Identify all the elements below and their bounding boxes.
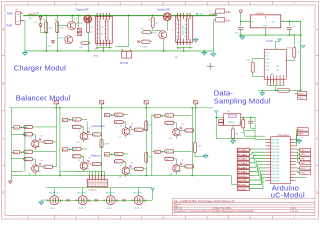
polarity mark [37, 12, 39, 14]
resistor R12 [242, 117, 244, 119]
pins U4 bottom [177, 39, 179, 46]
svg-text:1k: 1k [186, 166, 188, 168]
resistor Q12b [72, 125, 81, 128]
flags right GND [300, 167, 311, 170]
resistor R4 small [81, 41, 89, 44]
transistor Q4 [153, 30, 163, 32]
title block divider [289, 207, 291, 212]
connector P1 [16, 12, 21, 25]
svg-text:AREF: AREF [298, 133, 304, 136]
capacitor C2 [288, 21, 290, 26]
svg-text:Q?: Q? [89, 158, 91, 160]
connector P2 small [219, 120, 224, 123]
wire balancer left jogs [11, 126, 14, 128]
svg-text:PD3/INT: PD3/INT [238, 189, 247, 191]
transistor Q16 [173, 129, 180, 136]
crystal X1 [224, 114, 241, 126]
resistor Q11c [44, 165, 53, 168]
wire reg input [241, 20, 251, 22]
wire column verticals balancer [55, 108, 57, 167]
resistor R6 [152, 15, 154, 17]
svg-text:AVCC: AVCC [298, 128, 304, 131]
ground charger left [23, 53, 27, 56]
ground balancer mid [204, 155, 208, 158]
svg-text:Id: 1/1: Id: 1/1 [292, 211, 299, 213]
svg-text:C: C [316, 136, 318, 140]
wire cell Q10 right [39, 141, 44, 143]
svg-text:RLY1: RLY1 [135, 208, 141, 210]
wire cell Q10 out [33, 126, 57, 128]
wire stair to JP2 [60, 170, 104, 172]
flag BT4 [62, 148, 68, 151]
resistor Q17a [165, 150, 174, 153]
relay K4 [106, 196, 115, 205]
wire vertical x57 [56, 15, 58, 51]
wire cell Q12 in [68, 119, 73, 121]
svg-text:KiCad E.D.A. eeschema (2011-0: KiCad E.D.A. eeschema (2011-07-05 BZR 30… [174, 210, 254, 213]
svg-text:RELAY5V: RELAY5V [49, 192, 59, 195]
flag BT8 [155, 150, 161, 153]
transistor Q3 charger switch [84, 15, 92, 23]
transistor Q17 [173, 165, 180, 172]
svg-text:x1: x1 [120, 165, 122, 167]
svg-text:RELAY5V: RELAY5V [77, 192, 87, 195]
wire cell Q16 right [180, 129, 185, 131]
wires U1 to right flags [296, 148, 300, 151]
svg-text:1k: 1k [115, 122, 117, 124]
svg-text:PWR-: PWR- [7, 25, 13, 27]
svg-text:B: B [316, 81, 318, 85]
svg-text:BC557: BC557 [151, 32, 158, 34]
svg-text:x1: x1 [171, 126, 173, 128]
svg-text:GND: GND [298, 93, 303, 95]
flag BT6 [104, 153, 110, 156]
wire U3 bottom [96, 47, 112, 49]
diode marks between relays [67, 199, 70, 202]
power flag right bus [302, 46, 305, 48]
opto U3 [95, 16, 112, 43]
wire osc bottom [216, 138, 255, 140]
svg-text:PC0/AD0: PC0/AD0 [238, 149, 248, 152]
wire cell Q15 out [123, 153, 128, 155]
svg-text:1k: 1k [73, 156, 75, 158]
resistor Q10a [24, 125, 33, 128]
svg-text:PC5: PC5 [265, 69, 269, 71]
wire osc right vertical [254, 117, 256, 138]
transistor Q12 [80, 133, 87, 140]
wire to top right flags [296, 134, 298, 143]
resistor Q13c [92, 162, 101, 165]
sheet centre cross [207, 65, 214, 67]
svg-text:x: x [125, 55, 126, 57]
resistor Q17b [165, 157, 174, 160]
wire osc top right [241, 116, 255, 118]
svg-text:RLY1: RLY1 [79, 208, 85, 210]
wire sensor gnd rail [267, 85, 284, 87]
svg-text:PD4 PB4: PD4 PB4 [272, 152, 280, 154]
wire cell Q13 out [81, 148, 87, 150]
svg-text:PD2/INT: PD2/INT [238, 184, 247, 186]
svg-text:PD4 PB4: PD4 PB4 [272, 177, 280, 179]
svg-text:Charger Modul: Charger Modul [14, 63, 66, 72]
svg-text:139: 139 [76, 171, 79, 173]
wire relay rail y200 [46, 199, 152, 201]
wire Q4 emitter down [163, 39, 165, 51]
svg-text:PD3 PB3: PD3 PB3 [272, 149, 280, 151]
flags right port B [300, 148, 311, 151]
pins U3 bottom [96, 40, 98, 47]
svg-text:PD0/RXD: PD0/RXD [238, 176, 248, 178]
wire col1 inner vertical [24, 127, 26, 171]
connector JP2 pins [88, 174, 90, 179]
svg-text:File: my328ArduBal_bausVorlage: File: my328ArduBal_bausVorlage-VerkSchal… [174, 199, 235, 203]
wires stair flags to U1 [249, 148, 265, 151]
wire R10 to ground [194, 153, 196, 157]
transistor Q15 [122, 167, 129, 174]
svg-text:x1: x1 [120, 126, 122, 128]
svg-text:1k: 1k [166, 159, 168, 161]
svg-text:GND: GND [300, 168, 305, 170]
svg-text:Batt+: Batt+ [226, 11, 232, 14]
svg-text:1k: 1k [93, 164, 95, 166]
opto U4 [176, 16, 193, 43]
wire cell Q13 right [87, 163, 92, 165]
transistor Q5 discharge switch [163, 13, 171, 21]
flag BT5 [104, 113, 110, 116]
svg-text:1k: 1k [186, 130, 188, 132]
wires U1 to GND flags [296, 167, 300, 169]
wire vertical x88 [87, 15, 89, 22]
diode D5 mark [137, 40, 139, 42]
svg-text:PC3/AD3: PC3/AD3 [238, 162, 248, 165]
resistor R10 col4 [193, 142, 196, 153]
svg-text:RLY1: RLY1 [50, 208, 56, 210]
svg-text:100n: 100n [235, 32, 239, 34]
svg-text:RELAY5V: RELAY5V [133, 192, 143, 195]
ground relay1 [41, 199, 47, 201]
svg-text:PC2/AD2: PC2/AD2 [238, 158, 248, 161]
svg-text:CONN_6: CONN_6 [88, 189, 97, 191]
resistor R16 col3 row2 [145, 152, 148, 162]
svg-text:139: 139 [118, 176, 121, 178]
svg-text:1k: 1k [135, 130, 137, 132]
wire cell Q17 out [174, 150, 192, 152]
svg-text:Q?: Q? [181, 124, 183, 126]
IC U1 ATmega328 [271, 137, 291, 184]
resistor R14 col2 [100, 139, 103, 148]
flag Batt+ [216, 9, 225, 13]
svg-text:1k: 1k [25, 134, 27, 136]
svg-text:PD2 PB2: PD2 PB2 [272, 171, 280, 173]
wire osc left vertical [215, 113, 217, 138]
svg-text:Q?: Q? [131, 123, 133, 125]
svg-text:PC5/AD5: PC5/AD5 [238, 171, 248, 174]
svg-text:1k: 1k [45, 167, 47, 169]
svg-text:PC1: PC1 [265, 56, 269, 58]
svg-text:Balancer Modul: Balancer Modul [16, 93, 71, 102]
wire gnd rail [239, 34, 301, 36]
svg-text:Balancer: Balancer [91, 154, 101, 157]
svg-text:A4N35 8E: A4N35 8E [181, 25, 184, 35]
svg-text:RELAY5V: RELAY5V [105, 192, 115, 195]
resistor Q15c [134, 167, 143, 170]
power flag relay rail [151, 188, 154, 190]
svg-text:1M: 1M [235, 133, 238, 135]
svg-text:ATMEGA328: ATMEGA328 [277, 134, 290, 137]
transistor Q1 [68, 21, 76, 29]
svg-text:139: 139 [118, 137, 121, 139]
svg-text:x1: x1 [30, 138, 32, 140]
svg-text:D: D [2, 190, 4, 194]
svg-text:Q?: Q? [131, 163, 133, 165]
svg-text:PD2 PB2: PD2 PB2 [272, 146, 280, 148]
diode D1 [39, 16, 42, 19]
wire y90 rail [258, 89, 301, 91]
title block frame [172, 198, 315, 215]
wire cell Q14 right [129, 129, 134, 131]
resistor Q12c [92, 133, 101, 136]
svg-text:uC-Modul: uC-Modul [271, 191, 305, 200]
polarity mark right [196, 13, 198, 15]
svg-text:1k: 1k [115, 161, 117, 163]
wire cell Q16 in [160, 115, 165, 117]
frame column ticks top/bottom [54, 2, 56, 6]
wire bottom bus y175.3 [11, 175, 231, 177]
svg-text:x1: x1 [78, 160, 80, 162]
svg-text:P?: P? [217, 118, 219, 120]
svg-text:PD1 PB1: PD1 PB1 [272, 143, 280, 145]
svg-text:PD0 PB0: PD0 PB0 [272, 140, 280, 142]
wire Batt- down [213, 19, 216, 21]
svg-text:Batt-: Batt- [226, 20, 231, 23]
pin stacks U3 interior [96, 19, 98, 42]
resistor R9 [293, 35, 295, 47]
flag BT2 [14, 151, 20, 154]
flags port C left [237, 148, 249, 151]
svg-text:PC4/AD4: PC4/AD4 [238, 166, 248, 169]
fuse F2 [209, 14, 217, 16]
wire U4 bottom [177, 47, 193, 49]
resistor Q16a [165, 114, 174, 117]
svg-text:100R: 100R [142, 46, 147, 48]
svg-text:RLY1: RLY1 [107, 208, 113, 210]
pins U6 bottom [266, 75, 268, 85]
ground charger right [202, 52, 206, 55]
svg-text:R?: R? [148, 19, 150, 21]
svg-text:GND: GND [263, 25, 268, 27]
pins U4 top [177, 13, 179, 19]
svg-text:PD7 PB7: PD7 PB7 [272, 162, 280, 164]
svg-text:139: 139 [169, 174, 172, 176]
resistor R2 [56, 22, 59, 33]
svg-text:0R1 5W: 0R1 5W [120, 63, 129, 65]
ground osc [232, 139, 234, 141]
power flag VIN [239, 10, 242, 13]
resistor R8 [251, 62, 254, 72]
svg-text:R?: R? [43, 20, 45, 22]
svg-text:PC2: PC2 [265, 59, 269, 61]
svg-text:PC1/AD1: PC1/AD1 [238, 153, 248, 156]
svg-text:Q?: Q? [74, 18, 77, 20]
IC U6 sensor [264, 49, 286, 79]
capacitor C1 [238, 27, 243, 29]
resistor Q10b [24, 133, 33, 136]
pin stacks U4 interior [177, 18, 179, 40]
ground balancer left red [8, 181, 12, 184]
resistor R8b small [141, 40, 150, 43]
wire cell Q17 right [180, 165, 185, 167]
resistor R15 col3 [145, 121, 148, 131]
wire vertical x128.5 [128, 15, 130, 46]
zener D2 chain [40, 19, 42, 24]
svg-text:GND: GND [298, 98, 303, 100]
svg-text:PC3: PC3 [265, 62, 269, 64]
svg-text:x1: x1 [78, 130, 80, 132]
svg-text:ChargerOFF: ChargerOFF [75, 8, 89, 11]
wire relay rail y187.5 [46, 187, 152, 189]
svg-text:1k: 1k [45, 142, 47, 144]
flag GND 1 [298, 92, 307, 96]
svg-text:C: C [2, 136, 4, 140]
pins U3 top [96, 13, 98, 20]
svg-text:GND: GND [300, 172, 305, 174]
pins U1 left [265, 139, 271, 141]
svg-text:1k: 1k [166, 123, 168, 125]
wire bottom rail charger [25, 50, 213, 52]
resistor Q14a [114, 113, 123, 116]
svg-text:PD1/TXD: PD1/TXD [238, 180, 248, 182]
svg-text:100R: 100R [104, 143, 110, 145]
wire cell Q13 in [68, 148, 73, 150]
resistor Q17c [185, 165, 194, 168]
wire cell Q12 out [81, 118, 87, 120]
resistor Q11b [24, 158, 33, 161]
transistor Q2 [65, 36, 73, 44]
svg-text:1k: 1k [25, 159, 27, 161]
ground sensor [260, 93, 264, 96]
power flag osc [215, 111, 218, 113]
wire cell Q12 right [87, 133, 92, 135]
svg-text:1k: 1k [73, 127, 75, 129]
capacitor C3 [248, 120, 253, 122]
flag BT1 [14, 126, 20, 129]
resistor Q15a [114, 152, 123, 155]
svg-text:ADC: ADC [270, 73, 275, 76]
resistor R1 [45, 22, 48, 33]
flag Batt- [216, 18, 225, 22]
wire balancer top rail [9, 107, 213, 109]
relay K5 [134, 196, 143, 205]
flag BT3 [62, 118, 68, 121]
jumper JP1 [278, 88, 290, 92]
wire right bus x300.5 [300, 21, 302, 90]
svg-text:BC547: BC547 [58, 37, 65, 39]
ground U4 side [194, 39, 198, 42]
fuse marks on rail [54, 101, 58, 104]
resistor Q16c [185, 129, 194, 132]
svg-text:PD5 PB5: PD5 PB5 [272, 181, 280, 183]
shunt R5 [122, 51, 132, 58]
svg-text:PD6 PB6: PD6 PB6 [272, 158, 280, 160]
wire cell Q16 out [174, 114, 192, 116]
fuse F1 [28, 14, 36, 16]
svg-text:1k: 1k [135, 169, 137, 171]
svg-text:10u: 10u [292, 26, 295, 28]
svg-text:139: 139 [169, 138, 172, 140]
wire right lower [296, 176, 307, 178]
wire cell Q11 out [33, 151, 57, 153]
svg-text:Cell-Schalter: Cell-Schalter [91, 125, 105, 128]
svg-text:PD5 PB5: PD5 PB5 [272, 155, 280, 157]
pins U1 right [290, 139, 296, 141]
flag GND 2 [298, 96, 307, 100]
resistor Q11a [24, 150, 33, 153]
wire cell Q15 in [110, 153, 115, 155]
wire osc to mcu [255, 139, 265, 141]
svg-text:D2: D2 [276, 69, 278, 71]
resistor Q12a [72, 118, 81, 121]
svg-text:Q?: Q? [40, 160, 42, 162]
wire reg gnd down [265, 28, 267, 35]
wire cell Q10 in [19, 126, 24, 128]
svg-text:D: D [316, 190, 318, 194]
svg-text:LM7805: LM7805 [256, 13, 265, 15]
resistor Q10c [44, 140, 53, 143]
resistor Q16b [165, 121, 174, 124]
relay K1 coil [77, 28, 82, 31]
svg-text:x1: x1 [171, 162, 173, 164]
svg-text:Q?: Q? [89, 128, 91, 130]
svg-text:x1: x1 [30, 163, 32, 165]
transistor Q10 [32, 140, 39, 147]
svg-text:PD1 PB1: PD1 PB1 [272, 168, 280, 170]
transistor Q13 [80, 162, 87, 169]
wire balancer left vertical [10, 108, 12, 176]
svg-text:PC4: PC4 [265, 66, 269, 68]
svg-text:PD3 PB3: PD3 PB3 [272, 174, 280, 176]
wire cell Q11 right [39, 166, 44, 168]
wire bus to arduino [230, 176, 232, 185]
svg-text:Sampling Modul: Sampling Modul [214, 96, 271, 105]
resistor Q14b [114, 120, 123, 123]
wire cell Q15 right [129, 168, 134, 170]
wire P1 pin2 down [23, 20, 25, 22]
resistor R11 [232, 125, 234, 129]
svg-text:A: A [316, 27, 318, 31]
svg-text:1k: 1k [93, 134, 95, 136]
wire top rail charger [23, 15, 217, 17]
wire left bottom [10, 176, 12, 181]
resistor R7 small [142, 30, 151, 33]
wire cell Q14 out [123, 114, 128, 116]
svg-text:PD0 PB0: PD0 PB0 [272, 165, 280, 167]
svg-text:Q?: Q? [181, 160, 183, 162]
svg-text:139: 139 [76, 142, 79, 144]
resistor Q13a [72, 147, 81, 150]
relay K3 [78, 196, 87, 205]
resistor Q13b [72, 155, 81, 158]
svg-text:Rev:: Rev: [292, 208, 297, 210]
svg-text:PWR+: PWR+ [7, 13, 14, 15]
svg-text:EntladeOFF: EntladeOFF [157, 8, 170, 11]
wire cell Q14 in [110, 114, 115, 116]
ground mcu right [296, 139, 300, 141]
svg-text:PC0: PC0 [265, 52, 269, 54]
svg-text:2R: 2R [175, 57, 178, 59]
connector JP2 [87, 179, 107, 187]
regulator U5 [250, 15, 281, 28]
frame row ticks left/right [2, 54, 6, 56]
